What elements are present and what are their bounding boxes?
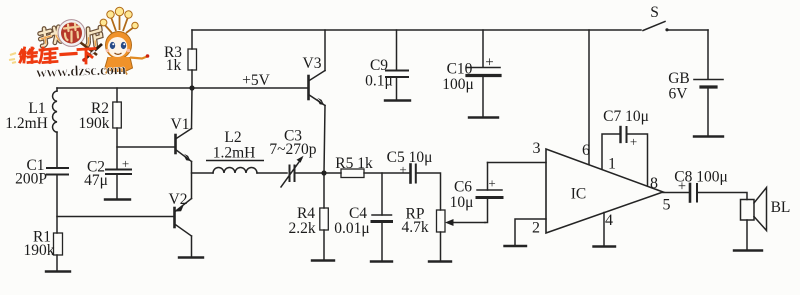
svg-text:+: + — [488, 176, 495, 191]
svg-text:0.1μ: 0.1μ — [365, 73, 393, 90]
wire L1 column top — [56, 88, 58, 91]
wire battery drop — [707, 30, 709, 79]
wire RP wiper to C6 — [485, 198, 488, 223]
wire L1 to C1 — [56, 132, 58, 168]
wire C10 branch — [482, 30, 484, 67]
speaker BL — [741, 188, 767, 231]
wire R5 to C5 — [364, 172, 410, 174]
wire V1 emitter to V2 emitter — [191, 162, 193, 199]
watermark yellow sparkles — [9, 53, 16, 63]
wire pin4 to ground — [603, 213, 605, 247]
svg-text:4: 4 — [605, 212, 613, 229]
watermark magnifier ring — [60, 21, 84, 45]
resistor R3 — [188, 49, 197, 70]
svg-text:BL: BL — [771, 199, 791, 216]
svg-text:+: + — [122, 156, 129, 171]
wire R2 to V1 base node — [116, 128, 118, 169]
svg-text:+5V: +5V — [242, 72, 270, 89]
node tank junction — [321, 170, 326, 175]
svg-text:3: 3 — [533, 140, 541, 157]
watermark dzsc logo — [9, 7, 149, 81]
svg-text:8: 8 — [650, 175, 658, 192]
wire C7 to pin8 — [627, 134, 648, 185]
wire R3 branch — [191, 30, 193, 49]
wire V2 base line — [57, 216, 175, 218]
wire R4 branch — [323, 173, 325, 208]
wire pin6 to rail — [588, 30, 590, 165]
svg-text:1k: 1k — [166, 57, 182, 74]
capacitor C7 — [621, 127, 627, 142]
watermark magnifier handle and pen — [81, 43, 98, 56]
svg-text:L2: L2 — [224, 129, 241, 146]
wire V1 collector — [191, 88, 194, 129]
svg-text:+: + — [399, 162, 406, 177]
watermark mascot — [100, 7, 149, 74]
svg-text:5: 5 — [663, 197, 671, 214]
inductor L1 — [53, 91, 57, 132]
svg-text:+: + — [678, 179, 686, 195]
svg-text:V2: V2 — [169, 191, 188, 208]
svg-text:100μ: 100μ — [442, 76, 474, 93]
capacitor C3 variable — [281, 156, 304, 187]
potentiometer RP — [437, 210, 486, 232]
svg-text:C6: C6 — [454, 179, 472, 196]
ground C4 — [371, 260, 392, 262]
ground R4 — [312, 259, 334, 261]
wire V3 collector — [324, 30, 326, 71]
svg-text:1: 1 — [608, 156, 616, 173]
svg-text:6: 6 — [582, 142, 590, 159]
resistor R2 — [113, 102, 122, 128]
ground C9 — [385, 99, 410, 101]
resistor R1 — [54, 233, 63, 255]
watermark char pian outlined — [85, 27, 102, 47]
svg-text:+: + — [630, 134, 637, 149]
svg-text:IC: IC — [571, 186, 587, 203]
svg-text:S: S — [650, 4, 659, 21]
svg-text:C9: C9 — [370, 57, 388, 74]
svg-text:47μ: 47μ — [84, 172, 108, 189]
transistor V2 — [175, 199, 192, 237]
wire RP to ground — [440, 232, 442, 261]
svg-text:6V: 6V — [669, 86, 689, 103]
wire output pin5 — [663, 192, 690, 194]
wire C6 to pin3 — [488, 162, 547, 164]
ground pin4 — [594, 245, 616, 247]
svg-text:1.2mH: 1.2mH — [5, 115, 48, 132]
wire R1 to ground — [56, 255, 58, 272]
wire C5 to RP — [416, 173, 441, 210]
capacitor C9 — [386, 71, 408, 101]
ground RP — [429, 260, 451, 262]
svg-text:190k: 190k — [24, 242, 55, 259]
ground pin2 — [505, 245, 527, 247]
switch S — [643, 22, 708, 32]
wire C9 branch — [396, 30, 398, 70]
wire V1 base — [117, 146, 175, 148]
wire C4 branch — [381, 173, 383, 215]
battery GB — [694, 80, 723, 137]
ground R1 — [46, 270, 70, 272]
capacitor C2 — [105, 170, 131, 200]
wire R3 to +5V node — [191, 70, 193, 88]
transistor V3 — [309, 71, 326, 106]
svg-text:C10: C10 — [447, 61, 473, 78]
label L2 underline — [206, 160, 264, 162]
capacitor C4 — [372, 215, 392, 261]
svg-text:R5 1k: R5 1k — [335, 155, 373, 172]
svg-text:4.7k: 4.7k — [401, 219, 428, 236]
svg-text:V1: V1 — [171, 116, 190, 133]
watermark char xin in magnifier — [64, 24, 79, 42]
wire L2 to C3 — [257, 172, 287, 174]
op-amp IC triangle — [546, 149, 663, 233]
svg-text:V3: V3 — [303, 55, 322, 72]
svg-text:2.2k: 2.2k — [288, 220, 315, 237]
capacitor C10 — [467, 68, 500, 118]
svg-text:0.01μ: 0.01μ — [334, 220, 369, 237]
wire V2 collector to ground — [191, 236, 193, 258]
resistor R5 — [341, 169, 364, 178]
wire R2 branch — [116, 88, 118, 102]
svg-text:10μ: 10μ — [450, 194, 474, 211]
wire +5V line — [57, 87, 308, 89]
wire C1 to junction — [56, 175, 58, 234]
svg-text:7~270p: 7~270p — [269, 141, 316, 158]
wire pin2 to ground — [515, 219, 546, 246]
wire C3 to node — [295, 172, 342, 174]
capacitor C5 — [411, 165, 416, 183]
ground BL — [734, 249, 762, 251]
svg-text:2: 2 — [532, 220, 540, 237]
node +5V junction — [189, 85, 194, 90]
watermark char zhao outlined — [39, 27, 62, 47]
resistor R4 — [320, 208, 329, 230]
inductor L2 — [213, 168, 257, 174]
transistor V1 — [176, 129, 192, 162]
capacitor C8 — [690, 184, 697, 202]
wire R4 ground lead — [323, 230, 325, 260]
capacitor C1 — [47, 168, 68, 175]
svg-text:200P: 200P — [15, 171, 47, 188]
wire pin1 riser — [602, 134, 621, 169]
ground C10 — [469, 116, 498, 118]
svg-text:GB: GB — [668, 70, 690, 87]
wire speaker to ground — [746, 220, 748, 250]
wire C8 to speaker — [697, 193, 747, 200]
svg-text:C7 10μ: C7 10μ — [603, 108, 649, 125]
svg-text:C5 10μ: C5 10μ — [387, 149, 433, 166]
wire V3 emitter — [324, 106, 325, 174]
capacitor C6 — [477, 163, 502, 198]
watermark weiku yixia red characters — [20, 48, 95, 63]
svg-text:190k: 190k — [79, 115, 110, 132]
wire top rail — [192, 29, 641, 31]
svg-text:+: + — [485, 55, 493, 71]
ground V2 — [179, 256, 203, 258]
wire to L2 — [192, 172, 214, 174]
svg-text:1.2mH: 1.2mH — [213, 145, 256, 162]
svg-text:www.dzsc.com: www.dzsc.com — [36, 62, 127, 81]
